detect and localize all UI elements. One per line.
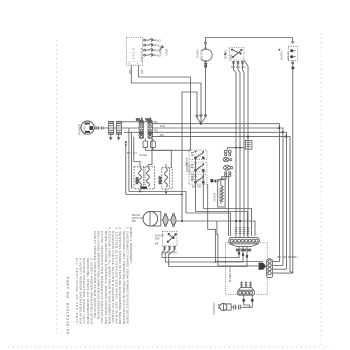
latch cam label: [159, 46, 169, 56]
burner switch SW2: [189, 162, 207, 172]
motor coil B: [168, 214, 176, 227]
arrow band3 corner: [285, 134, 288, 137]
transformer T1: [134, 139, 155, 192]
wire choke2 stub down: [118, 135, 120, 140]
burner switch interior texture: [192, 155, 205, 182]
wire latch to center (upper): [138, 77, 190, 150]
lamp connector pair bottom: [225, 172, 231, 177]
wire A branch down to valve connector: [208, 213, 263, 262]
convection fan motor M1: [196, 48, 213, 62]
small connector box on line 4: [245, 141, 252, 150]
connector arrow plug: [259, 263, 267, 270]
svg-text:WH: WH: [146, 118, 151, 122]
wire band feed lower: [124, 131, 139, 133]
connector strip CN1: [139, 121, 143, 139]
arrow band1 corner: [278, 126, 281, 129]
node valve feed junction: [215, 261, 217, 263]
wire bus b continue: [217, 221, 255, 236]
wire DS2 route 3: [169, 250, 247, 266]
wire top bus to oven light: [206, 38, 293, 43]
wire row C: [203, 209, 251, 237]
terminal strip TS1: [229, 238, 260, 247]
svg-text:OVEN: OVEN: [280, 51, 284, 60]
relay coil K1: [159, 164, 172, 193]
wire row D: [196, 212, 248, 237]
wire left column B: [128, 128, 130, 192]
wire hatch bar 2 below DS1: [237, 61, 239, 65]
gas valve dashed enclosure: [226, 243, 268, 294]
indicator lamp column: [211, 150, 233, 182]
wire hatch bar 1 below DS1: [232, 61, 234, 65]
wire power cord to filter: [94, 127, 96, 129]
wire conv motor down to junction: [205, 68, 207, 118]
wire DS1 bar1 down: [234, 65, 237, 226]
svg-text:FUSE: FUSE: [139, 153, 147, 157]
line choke F2: [114, 121, 122, 134]
svg-text:LIGHT: LIGHT: [286, 51, 290, 60]
oven door switch DS2: [155, 231, 177, 246]
svg-text:BK WH RD: BK WH RD: [236, 248, 252, 252]
svg-text:SWITCH: SWITCH: [140, 48, 144, 62]
wire igniter elbow 2: [250, 302, 253, 308]
wire connector riser 3: [273, 268, 287, 270]
wire hatch bar 2 below DS2: [168, 246, 170, 250]
svg-text:OR-2B: OR-2B: [188, 164, 192, 173]
svg-text:WH: WH: [160, 124, 165, 128]
wire band 2: [152, 128, 283, 265]
wire band 4: [152, 137, 292, 274]
wire connector riser 4: [273, 272, 293, 274]
fuse box FB2: [150, 139, 191, 151]
component labels row: [127, 151, 147, 157]
strip hanging pins: [236, 247, 252, 258]
node sec junctions: [139, 191, 141, 193]
node main bus junction: [200, 123, 202, 125]
latch switch LS1: [126, 37, 143, 65]
wire choke1 stub down: [110, 135, 112, 140]
wire oven light down right bundle: [292, 61, 294, 274]
latch switch contact row 2: [144, 44, 156, 47]
burner switch SW3: [189, 174, 207, 184]
wire sensor top to right: [222, 177, 229, 236]
wire band 1: [152, 124, 279, 262]
indicator lamp L2: [224, 165, 233, 170]
bake motor M2: [132, 212, 161, 227]
node cluster crossing dots: [235, 220, 237, 222]
wire DS1 corner diagonal down: [244, 60, 248, 226]
svg-text:BK: BK: [155, 242, 159, 246]
wire loop rectangle left: [182, 92, 197, 221]
wire lamp feed: [228, 147, 245, 150]
gas valve connector CN3: [267, 259, 273, 278]
wire hatch bar 1 below DS2: [163, 246, 165, 250]
svg-text:BK: BK: [127, 151, 131, 155]
wire connector riser 1: [273, 261, 280, 263]
burner switch labels: [185, 160, 202, 188]
notes text block: [75, 227, 133, 325]
svg-text:SENSOR: SENSOR: [218, 188, 222, 202]
svg-text:MOTOR: MOTOR: [200, 49, 204, 61]
wire SW1 down: [195, 159, 197, 211]
wire DS1 bar2 down: [238, 65, 240, 226]
svg-text:PART NO. 8101P918-60: PART NO. 8101P918-60: [66, 277, 70, 334]
latch switch contact row 1: [144, 39, 156, 42]
svg-text:GY: GY: [133, 151, 137, 155]
wire choke to strip: [121, 127, 139, 129]
wire choke top feed: [120, 117, 152, 122]
node motor bus junctions: [181, 220, 183, 222]
wire DS2 route 1: [162, 250, 239, 257]
connector pair inline: [97, 126, 105, 129]
wire motor to bus: [176, 220, 217, 222]
wire transformer secondary 1: [129, 192, 186, 214]
connector strip CN2: [148, 121, 152, 139]
wire connector riser 2: [273, 264, 283, 266]
wire transformer secondary 2: [126, 194, 182, 196]
bottom connector hatched pins: [240, 282, 251, 288]
oven sensor RS1: [213, 180, 225, 207]
svg-text:BU: BU: [160, 133, 164, 137]
svg-text:LATCH: LATCH: [132, 48, 136, 62]
svg-text:XFMR: XFMR: [136, 177, 139, 184]
wire latch to center (lower): [131, 83, 201, 117]
connector below conv motor: [204, 62, 207, 67]
indicator lamp L1: [223, 157, 232, 161]
wire DS1 bar3 down: [243, 65, 245, 226]
latch switch contact row 4: [144, 54, 156, 57]
svg-text:SW: SW: [155, 237, 160, 241]
svg-text:RD-3C: RD-3C: [191, 171, 195, 181]
wire label column: [185, 157, 195, 182]
wire hatch bar 3 below DS2: [173, 246, 175, 250]
line choke F1: [105, 121, 113, 134]
svg-text:SW: SW: [229, 54, 233, 59]
svg-text:BK OR: BK OR: [192, 185, 202, 189]
svg-text:CORD: CORD: [83, 125, 87, 135]
wire SW2 down: [202, 172, 204, 209]
svg-text:ALL SERVICING OF THE UNIT.: ALL SERVICING OF THE UNIT.: [75, 258, 79, 324]
svg-text:BK: BK: [154, 120, 158, 124]
wire B branch down to valve connector: [217, 221, 258, 266]
svg-text:OVEN: OVEN: [213, 193, 217, 202]
wire CN4 pin drops: [243, 295, 254, 302]
wire latch left stub down: [128, 65, 132, 83]
motor coil A: [161, 214, 168, 227]
wire DS2 route 2: [165, 250, 243, 262]
selector box top pins: [195, 151, 205, 178]
wire SW3 down: [207, 184, 209, 213]
wire band 3: [152, 132, 286, 269]
wire latch right stub down: [138, 65, 144, 77]
burner switch SW1: [189, 150, 207, 160]
wire hatched entries above terminal strip: [235, 226, 249, 237]
svg-text:POWER: POWER: [77, 123, 81, 135]
svg-text:CAM: CAM: [165, 48, 169, 55]
wire relay feed: [145, 150, 171, 167]
svg-text:BK: BK: [136, 118, 140, 122]
oven light OL1: [279, 42, 298, 61]
bottom connector CN4: [237, 288, 254, 296]
igniter IG1: [212, 301, 242, 314]
svg-text:IGNITER: IGNITER: [212, 301, 216, 314]
arrow plugs into bus junction: [196, 115, 207, 124]
wire hatch bar 3 below DS1: [241, 61, 243, 65]
connector below oven light: [291, 62, 294, 69]
wire row A: [186, 213, 231, 236]
svg-text:RELAY: RELAY: [159, 176, 162, 184]
power cord P1: [77, 121, 94, 135]
wire lamp down-left: [211, 177, 227, 183]
fuse box FB1: [143, 139, 148, 151]
wire left column C: [131, 132, 133, 189]
svg-text:NO: NO: [156, 38, 161, 42]
arrow band2 corner: [281, 130, 284, 133]
svg-text:BK: BK: [132, 219, 136, 223]
wire igniter to CN4: [242, 302, 250, 308]
wire left column A: [125, 142, 127, 195]
node band dot: [125, 141, 127, 143]
svg-text:M1/M2 GAS: M1/M2 GAS: [228, 266, 232, 282]
node band4 cluster junction: [247, 136, 249, 138]
wire left column D: [134, 137, 140, 167]
svg-text:BK-1A: BK-1A: [185, 157, 189, 166]
connector on conv motor top: [204, 43, 207, 48]
lamp connector pair top: [224, 150, 231, 156]
svg-text:BK WH RD BU: BK WH RD BU: [278, 255, 298, 259]
door switch DS1 (upper right): [224, 47, 244, 60]
latch switch contact row 3: [144, 49, 156, 52]
